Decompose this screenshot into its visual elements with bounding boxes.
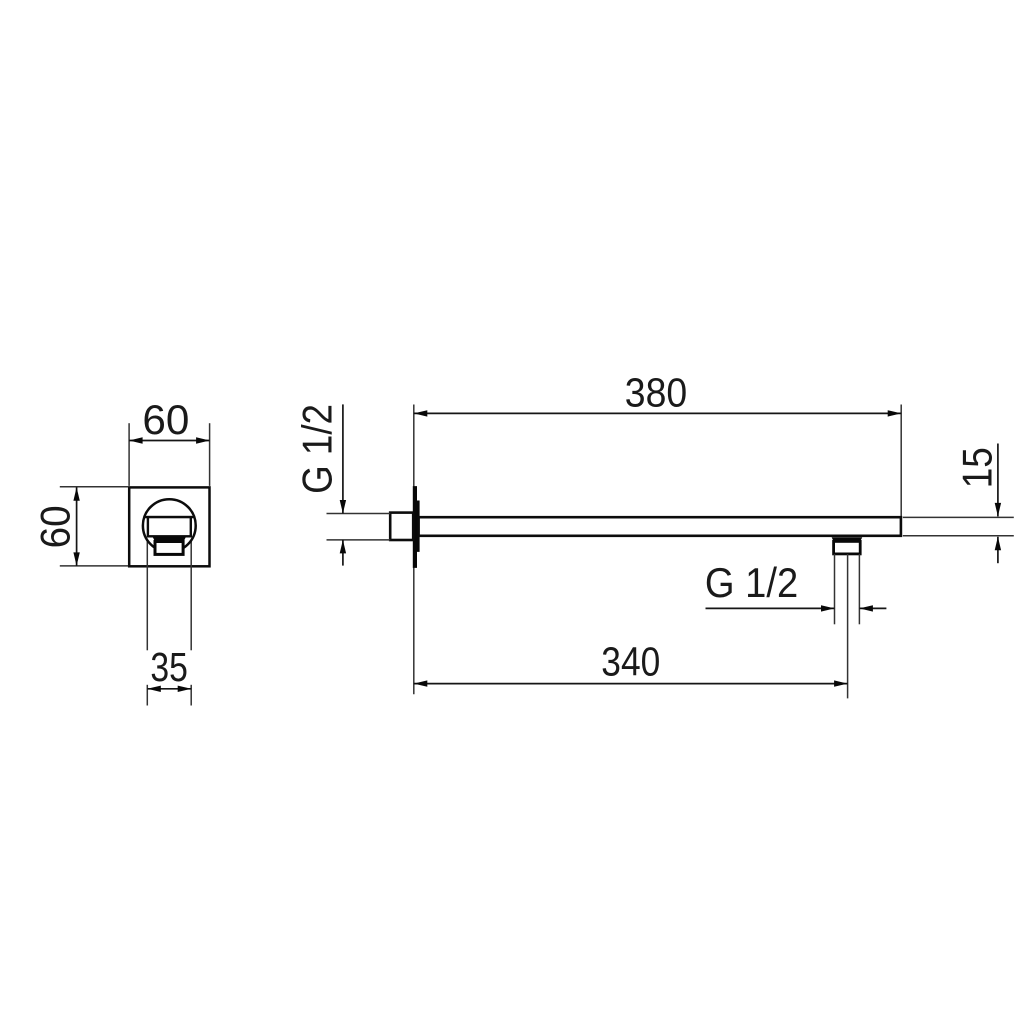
svg-text:60: 60 (32, 505, 79, 548)
side view: supply stub G1/2 (390, 513, 413, 540)
dim 60 left: extension lines (60, 487, 128, 566)
front view: inner rectangle (148, 517, 191, 536)
dim 380: left extension line (413, 405, 415, 695)
outlet nut (834, 541, 861, 554)
dim 60 top: extension lines (129, 423, 210, 486)
outlet shadow band (832, 537, 863, 541)
dim G1/2 bottom: dimension lines (706, 607, 835, 609)
svg-text:380: 380 (625, 370, 687, 416)
side view: arm tube (419, 517, 901, 536)
front view: square escutcheon plate (129, 487, 209, 566)
svg-text:G 1/2: G 1/2 (705, 559, 798, 606)
dim 15: extension lines (903, 517, 1014, 535)
dim 15: dimension line (upper) (997, 444, 999, 517)
svg-text:340: 340 (601, 639, 660, 685)
outlet thread lines (835, 554, 860, 624)
dim 35: extension lines (147, 538, 191, 706)
outlet centre / 340 extension line (847, 554, 849, 698)
front view: spout shadow trapezoid (152, 536, 186, 541)
svg-text:G 1/2: G 1/2 (293, 404, 340, 494)
front view: spout outlet rect (155, 542, 183, 555)
dim 35: dimension line (147, 688, 191, 690)
dim G1/2 left: dimension line (upper) (342, 404, 344, 513)
side view: wall flange (side profile) (413, 486, 420, 568)
dim 15: dimension line (lower) (997, 537, 999, 563)
svg-text:60: 60 (142, 396, 189, 443)
front view: chord line (144, 516, 194, 518)
dim 380: dimension line (414, 412, 901, 414)
dim G1/2 left: dimension line (lower) (342, 540, 344, 566)
svg-text:35: 35 (150, 644, 188, 690)
dim 60 top: dimension line (129, 440, 210, 442)
front view: round boss circle (143, 499, 196, 552)
dim 380: right extension line (900, 405, 902, 517)
dim 60 left: dimension line (76, 487, 78, 566)
dim G1/2 left: extension lines (327, 514, 391, 540)
dim 340: dimension line (414, 683, 848, 685)
svg-text:15: 15 (954, 447, 1001, 488)
